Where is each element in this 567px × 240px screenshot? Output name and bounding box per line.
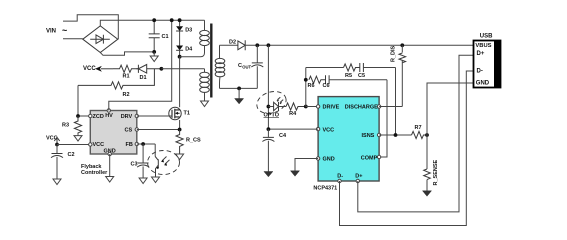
pin VCC [89,143,92,146]
wire HV to rail [109,20,172,110]
wire node A to DRIVE [306,106,318,108]
node VBUS rail junction Rdis [400,43,404,47]
pin CS [135,128,138,131]
pin VCC [316,127,319,130]
wire FB line [137,143,155,145]
svg-text:R4: R4 [289,111,297,117]
ground under secondary return [235,88,244,104]
wire switch node to primary bottom [180,46,205,57]
MOSFET T1 [169,107,190,119]
pin COMP [377,155,380,158]
svg-text:ZCD: ZCD [93,114,104,120]
wire DISCHARGE [379,106,402,108]
resistor R4 [286,103,306,117]
svg-text:R_SENSE: R_SENSE [433,159,439,185]
resistor R2 [78,69,154,98]
wire USB GND to sense node [427,83,474,135]
node sense junction [425,133,429,137]
node VBUS rail junction opto [267,43,271,47]
svg-text:C2: C2 [68,152,75,158]
wire VIN top stub [63,15,118,40]
svg-text:C3: C3 [131,162,138,168]
wire VBUS drop to opto LED and VCC [267,45,269,129]
pin D+ [356,179,359,182]
ground under R3 [74,134,82,141]
svg-text:D+: D+ [355,174,362,180]
svg-text:Controller: Controller [81,170,108,176]
capacitor C1 [149,18,169,54]
diode D4 [176,31,193,57]
svg-text:C5: C5 [358,73,365,79]
node secondary return junction [237,87,241,91]
svg-text:D+: D+ [477,51,485,57]
svg-text:~: ~ [62,26,67,36]
USB connector [474,33,501,88]
ground under R_SENSE [423,191,432,196]
node LED junction [267,105,271,109]
capacitor C2 [51,145,75,180]
ground under C1 [150,52,158,62]
svg-text:D3: D3 [185,27,192,33]
svg-text:NCP4371: NCP4371 [313,186,337,192]
svg-text:OUT: OUT [242,64,251,69]
NCP4371 box [318,97,379,181]
pin FB [135,142,138,145]
svg-text:C4: C4 [279,133,287,139]
svg-text:DISCHARGE: DISCHARGE [345,105,378,111]
svg-text:CS: CS [125,128,133,134]
node A junction [304,105,308,109]
node VIN label [46,26,67,36]
svg-text:FB: FB [126,142,133,148]
svg-text:GND: GND [323,157,335,163]
node VCC supply left [46,135,60,144]
resistor R5 [306,64,360,79]
transformer aux winding [200,69,210,101]
capacitor C5 [358,63,396,79]
svg-text:R3: R3 [62,122,69,128]
node ZCD junction [76,114,80,118]
ground under GND2 [291,171,300,176]
pin DRV [135,114,138,117]
ground under aux [201,101,209,107]
node VBUS rail junction Cout [255,43,259,47]
node aux junction dot [160,67,164,71]
wire DC+ rail [100,20,204,26]
node VCC2 junction [267,127,271,131]
node VCC (aux supply) with arrow [83,66,113,72]
svg-text:USB: USB [480,33,493,39]
wire VIN bottom stub [63,38,83,40]
wire bridge negative return [100,52,154,55]
flyback controller box [90,111,137,155]
wire D- routing [340,71,474,226]
svg-text:R1: R1 [123,74,130,80]
wire VCC2 line [268,128,318,130]
node HV rail junction [170,18,174,22]
pin HV [107,109,110,112]
wire GND pin down [109,154,111,177]
ground under C2 [53,179,61,185]
svg-text:GND: GND [476,81,490,87]
capacitor COUT [238,45,263,88]
resistor R7 [412,125,427,139]
ground under C3 [139,178,147,184]
bridge rectifier [83,26,118,53]
wire D+ routing [358,55,474,212]
pin ZCD [89,114,92,117]
svg-text:OPTO: OPTO [264,112,280,118]
pin GND [108,152,111,155]
resistor R_DIS [390,45,405,106]
svg-text:HV: HV [105,113,113,119]
label Flyback Controller [81,164,108,176]
svg-text:R_CS: R_CS [186,138,201,144]
resistor R_SENSE [424,135,439,191]
svg-text:R2: R2 [123,92,130,98]
node R6 branch junction [304,78,308,82]
transformer core [210,24,212,98]
diode D3 [176,20,192,33]
ground under C4 [264,172,273,177]
wire GND2 [295,159,318,171]
wire drain [179,57,181,107]
wire R5C5 branch down to ISNS [395,68,397,136]
diode D1 [136,65,161,82]
capacitor C4 [262,129,287,171]
svg-text:D-: D- [477,69,483,75]
svg-text:R5: R5 [345,73,352,79]
svg-text:VCC: VCC [323,127,335,133]
opto phototransistor [148,144,180,177]
capacitor C3 [131,144,150,178]
svg-text:VCC: VCC [83,66,96,72]
svg-text:T1: T1 [184,110,190,116]
svg-text:C1: C1 [162,34,169,40]
svg-text:C6: C6 [323,83,330,89]
svg-text:DRV: DRV [121,114,133,120]
pin D- [338,179,341,182]
svg-text:D1: D1 [140,75,147,81]
ground under opto emitter [152,177,160,183]
pin GND2 [316,157,319,160]
wire ISNS line [379,134,411,136]
node FB junction [141,142,145,146]
wire R2 to ZCD [78,85,90,116]
node ISNS junction [394,133,398,137]
svg-text:D4: D4 [185,47,193,53]
wire R6C6 branch down to COMP [379,80,387,157]
svg-text:COMP: COMP [361,155,378,161]
node switch junction [178,55,182,59]
svg-text:VCC: VCC [93,142,105,148]
resistor R6 [308,76,326,89]
wire source to CS [137,120,180,130]
pin ISNS [377,133,380,136]
resistor R_CS [176,130,201,155]
wire secondary return [220,87,258,89]
transformer secondary [215,45,225,88]
svg-text:D-: D- [337,174,343,180]
wire VCC to pin [57,144,90,146]
pin DISCHARGE [377,105,380,108]
transformer T primary [200,20,210,45]
pin DRIVE [316,105,319,108]
ground under R_CS [176,154,184,160]
node CS junction [178,128,182,132]
wire DRV to gate [137,115,173,117]
svg-text:VBUS: VBUS [475,43,491,49]
resistor R3 [62,116,82,134]
svg-text:R_DIS: R_DIS [390,45,396,62]
node D3 rail junction [178,18,182,22]
svg-text:ISNS: ISNS [362,133,375,139]
svg-text:DRIVE: DRIVE [323,105,340,111]
wire node A up [305,68,307,107]
diode D2 [220,40,474,51]
resistor R1 [113,65,138,79]
opto LED [254,88,289,119]
wire aux top to transformer [161,68,204,70]
ground under GND pin [106,177,114,183]
svg-text:R7: R7 [415,125,422,131]
capacitor C6 [323,75,388,89]
svg-text:VIN: VIN [46,28,56,34]
svg-text:R6: R6 [308,83,315,89]
